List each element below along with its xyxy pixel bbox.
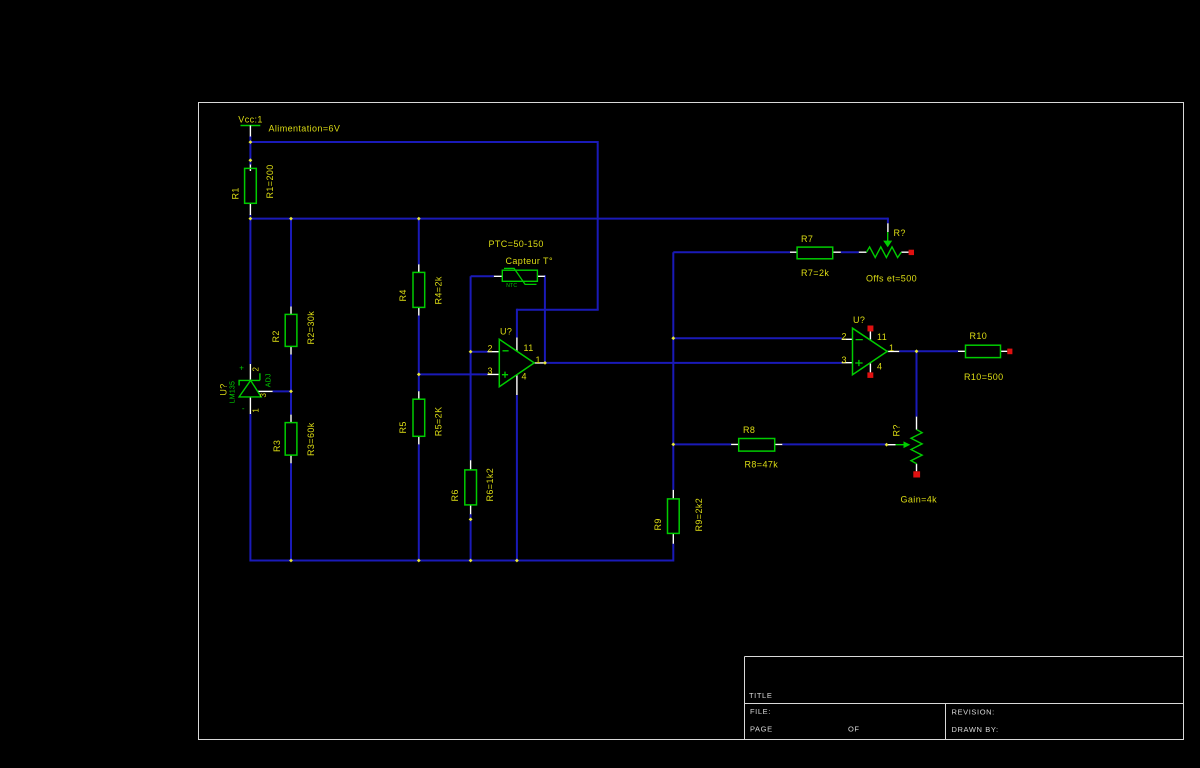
temperature sensor U? LM135: [218, 364, 272, 415]
node junction: [671, 336, 675, 340]
wire: [471, 351, 488, 353]
node junction: [671, 443, 675, 447]
svg-text:R1=200: R1=200: [265, 164, 275, 198]
svg-text:U?: U?: [500, 326, 512, 336]
potentiometer R? Gain: [888, 417, 937, 505]
node junction: [417, 373, 421, 377]
svg-text:DRAWN BY:: DRAWN BY:: [952, 725, 999, 734]
svg-text:3: 3: [842, 355, 847, 365]
svg-text:-: -: [242, 404, 245, 413]
pin 11 no-connect: [868, 326, 874, 332]
resistor R9: [653, 490, 704, 544]
wire: [597, 141, 599, 310]
thermistor Capteur T (PTC): [489, 239, 553, 289]
wire: [250, 560, 673, 562]
wire: [516, 395, 518, 562]
svg-text:1: 1: [536, 355, 541, 365]
svg-text:R9=2k2: R9=2k2: [694, 498, 704, 532]
svg-text:OF: OF: [848, 725, 860, 734]
node junction: [249, 140, 253, 144]
svg-text:1: 1: [889, 343, 894, 353]
node junction: [289, 390, 293, 394]
svg-text:LM135: LM135: [229, 381, 236, 403]
svg-text:1: 1: [251, 408, 260, 413]
wire: [544, 275, 546, 363]
wire: [887, 218, 889, 224]
svg-text:PTC=50-150: PTC=50-150: [489, 239, 544, 249]
node junction: [469, 518, 473, 522]
resistor R2: [271, 307, 316, 355]
node junction: [469, 350, 473, 354]
svg-text:Alimentation=6V: Alimentation=6V: [269, 124, 341, 134]
wire: [250, 218, 888, 220]
wire: [290, 354, 292, 414]
svg-text:R8=47k: R8=47k: [745, 460, 779, 470]
svg-text:2: 2: [251, 367, 260, 372]
svg-text:R9: R9: [653, 518, 663, 530]
wire: [471, 275, 494, 277]
resistor R5: [398, 391, 443, 444]
resistor R3: [272, 415, 316, 464]
svg-text:FILE:: FILE:: [750, 707, 771, 716]
svg-text:R3: R3: [272, 440, 282, 452]
svg-text:R2=30k: R2=30k: [306, 311, 316, 345]
svg-text:4: 4: [522, 372, 527, 382]
svg-text:PAGE: PAGE: [750, 725, 773, 734]
wire: [249, 414, 251, 562]
svg-text:R7=2k: R7=2k: [801, 268, 829, 278]
wire: [418, 315, 420, 391]
wire: [673, 251, 790, 253]
svg-text:3: 3: [259, 393, 268, 398]
wire: [249, 136, 251, 165]
svg-text:R8: R8: [743, 425, 755, 435]
svg-text:NTC: NTC: [506, 283, 517, 289]
power symbol Vcc: [238, 115, 263, 137]
node junction: [915, 349, 919, 353]
svg-text:R2: R2: [271, 330, 281, 342]
wire: [782, 443, 886, 445]
svg-text:+: +: [239, 364, 244, 373]
node junction: [515, 559, 519, 563]
wire: [672, 544, 674, 562]
node junction: [885, 443, 889, 447]
terminal no-connect: [913, 471, 920, 477]
wire: [470, 276, 472, 460]
potentiometer R? Offset: [859, 223, 917, 283]
terminal no-connect: [1007, 349, 1012, 355]
wire: [290, 218, 292, 307]
wire: [916, 351, 918, 416]
wire: [418, 218, 420, 265]
resistor R8: [731, 425, 782, 470]
svg-text:U?: U?: [853, 315, 865, 325]
svg-text:REVISION:: REVISION:: [952, 708, 995, 717]
svg-text:TITLE: TITLE: [749, 691, 772, 700]
wire: [672, 252, 674, 490]
svg-text:R?: R?: [892, 424, 902, 436]
svg-text:Vcc:1: Vcc:1: [238, 115, 263, 125]
svg-text:R1: R1: [230, 187, 240, 199]
resistor R7: [790, 234, 841, 278]
wire: [470, 514, 472, 562]
wire: [249, 215, 251, 220]
svg-text:R4: R4: [398, 289, 408, 301]
svg-text:U?: U?: [218, 383, 228, 395]
svg-text:2: 2: [488, 343, 493, 353]
svg-text:2: 2: [842, 332, 847, 342]
pin 4 no-connect: [867, 372, 873, 378]
op-amp U2: [842, 315, 900, 378]
node junction: [417, 559, 421, 563]
svg-text:R4=2k: R4=2k: [433, 276, 443, 304]
wire: [249, 219, 251, 364]
wire: [841, 251, 859, 253]
svg-text:R10=500: R10=500: [964, 372, 1004, 382]
node junction: [469, 559, 473, 563]
wire: [516, 309, 518, 338]
wire: [673, 337, 841, 339]
node junction: [249, 217, 253, 221]
wire: [250, 141, 597, 143]
resistor R10: [958, 331, 1012, 382]
svg-text:Capteur T°: Capteur T°: [506, 256, 553, 266]
svg-text:ADJ: ADJ: [265, 373, 272, 387]
terminal no-connect: [909, 250, 914, 255]
node junction: [543, 361, 547, 365]
svg-text:R?: R?: [894, 228, 906, 238]
wire: [418, 444, 420, 561]
wire: [673, 443, 731, 445]
wire: [419, 373, 488, 375]
node junction: [249, 158, 253, 162]
svg-text:R3=60k: R3=60k: [306, 422, 316, 456]
node junction: [289, 217, 293, 221]
wire: [273, 390, 291, 392]
svg-text:Offs et=500: Offs et=500: [866, 274, 917, 284]
resistor R6: [450, 460, 495, 514]
resistor R1: [230, 164, 274, 215]
resistor R4: [398, 264, 443, 315]
svg-text:R5=2K: R5=2K: [433, 407, 443, 437]
svg-text:11: 11: [524, 343, 534, 353]
svg-text:R7: R7: [801, 234, 813, 244]
svg-text:R5: R5: [398, 421, 408, 433]
svg-text:R6=1k2: R6=1k2: [485, 468, 495, 502]
op-amp U1: [488, 326, 547, 395]
svg-text:3: 3: [488, 366, 493, 376]
wire: [545, 362, 842, 364]
node Vcc net: [250, 136, 958, 562]
svg-text:R10: R10: [970, 331, 988, 341]
svg-text:4: 4: [877, 361, 882, 371]
wire: [517, 309, 599, 311]
svg-text:Gain=4k: Gain=4k: [901, 495, 938, 505]
svg-text:11: 11: [877, 332, 887, 342]
wire: [899, 350, 958, 352]
svg-text:R6: R6: [450, 489, 460, 501]
wire: [290, 463, 292, 562]
node junction: [289, 559, 293, 563]
node junction: [417, 217, 421, 221]
